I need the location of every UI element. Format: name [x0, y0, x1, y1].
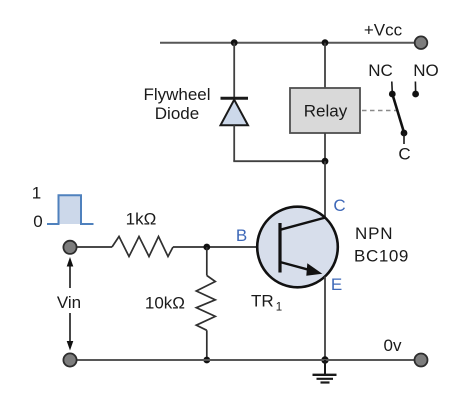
svg-text:NO: NO — [413, 61, 439, 80]
wire R1 to base node — [173, 246, 281, 248]
relay common contact C — [401, 130, 408, 144]
svg-text:1: 1 — [276, 302, 282, 314]
svg-text:Vin: Vin — [57, 293, 81, 312]
wire diode anode down — [233, 125, 235, 161]
svg-text:TR: TR — [251, 292, 274, 311]
svg-text:1: 1 — [32, 183, 41, 202]
svg-text:NC: NC — [368, 61, 393, 80]
svg-text:1kΩ: 1kΩ — [126, 209, 157, 228]
Vin measurement arrow — [67, 257, 74, 351]
wire R2 to 0v rail — [206, 330, 208, 360]
transistor TR1 body — [257, 207, 338, 288]
resistor R1 1k — [112, 237, 173, 257]
svg-text:C: C — [333, 196, 345, 215]
wire diode anode to collector node — [233, 160, 325, 162]
junction R2/0v rail — [203, 357, 210, 364]
relay contact NC pin — [389, 82, 396, 98]
wire top-rail to diode cathode — [233, 43, 235, 97]
relay RL1 coil box — [290, 88, 360, 133]
terminal +Vcc — [415, 36, 428, 49]
terminal 0v — [415, 354, 428, 367]
svg-text:C: C — [398, 145, 410, 164]
svg-text:Diode: Diode — [155, 104, 199, 123]
svg-text:10kΩ: 10kΩ — [145, 294, 185, 313]
svg-text:B: B — [236, 226, 247, 245]
relay switch arm — [393, 95, 405, 133]
diode D1 flywheel — [221, 98, 249, 125]
wire base node to R2 — [206, 247, 208, 276]
junction emitter/0v rail — [321, 356, 328, 363]
terminal Vin return — [63, 353, 76, 366]
svg-text:0v: 0v — [384, 336, 402, 355]
diode label "Flywheel Diode" — [143, 85, 210, 123]
wire top +Vcc rail — [160, 42, 415, 44]
wire input terminal to R1 — [77, 246, 112, 248]
relay contact linkage (dashed) — [362, 110, 397, 112]
svg-text:0: 0 — [33, 212, 42, 231]
svg-text:E: E — [331, 275, 342, 294]
ground — [313, 360, 337, 383]
svg-text:Flywheel: Flywheel — [143, 85, 210, 104]
wire emitter to 0v rail — [324, 277, 326, 361]
wire relay coil to collector node — [324, 133, 326, 161]
wire bottom 0v rail — [70, 359, 415, 361]
junction relay/top-rail — [322, 39, 329, 46]
TR1 reference label — [251, 292, 282, 314]
svg-text:NPN: NPN — [355, 224, 393, 243]
terminal Vin input — [63, 241, 76, 254]
wire top-rail to relay coil — [324, 43, 326, 88]
transistor type label NPN BC109 — [354, 224, 409, 266]
junction diode/top-rail — [231, 39, 238, 46]
junction base node — [203, 244, 210, 251]
svg-text:+Vcc: +Vcc — [364, 20, 403, 39]
relay contact NO pin — [412, 82, 419, 98]
input pulse waveform — [47, 195, 94, 224]
wire collector node to transistor collector — [324, 161, 326, 218]
svg-text:Relay: Relay — [304, 102, 348, 121]
svg-text:BC109: BC109 — [354, 247, 409, 266]
resistor R2 10k — [196, 276, 215, 331]
junction collector node — [322, 158, 329, 165]
